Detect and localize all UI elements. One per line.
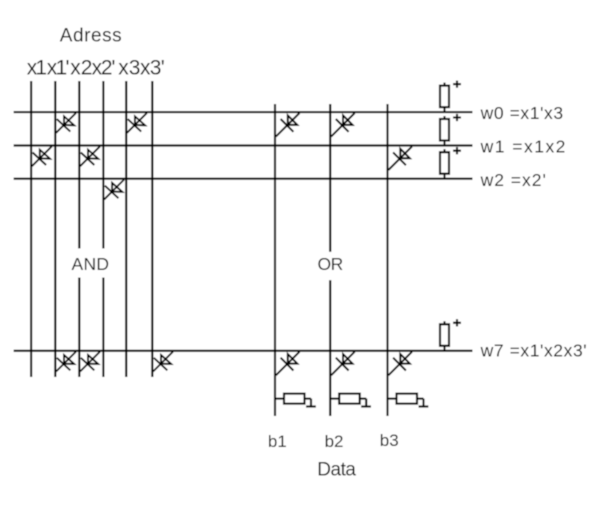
wire: bit line b3: [386, 104, 388, 416]
svg-text:w0 =x1'x3: w0 =x1'x3: [480, 103, 563, 123]
svg-text:x3: x3: [118, 56, 140, 79]
pull-up resistor R7 on w7 with + supply: [440, 319, 461, 351]
pull-down resistor Rb1 with ground: [275, 394, 316, 407]
pull-down resistor Rb3 with ground: [388, 394, 429, 407]
pull-up resistor R2 on w2 with + supply: [440, 147, 461, 179]
wire: address line x1': [54, 81, 56, 377]
svg-text:x2': x2': [92, 56, 116, 79]
diode D8 (w7, x3'): [153, 352, 173, 372]
svg-text:x2: x2: [70, 56, 92, 79]
diode D2 (w0, x3): [127, 113, 147, 133]
wire: word line w1: [14, 144, 473, 146]
svg-text:w1 =x1x2: w1 =x1x2: [480, 136, 566, 156]
diode D7 (w7, x2): [80, 352, 100, 372]
diode D9 (w0, b1): [276, 113, 300, 137]
svg-text:x3': x3': [140, 56, 165, 79]
wire: address line x2 (gap at AND text): [78, 81, 80, 377]
svg-text:w2 =x2': w2 =x2': [480, 170, 546, 190]
pull-up resistor R0 on w0 with + supply: [440, 81, 461, 113]
wire: address line x1: [30, 81, 32, 377]
wire: bit line b1: [274, 104, 276, 416]
svg-text:b3: b3: [380, 431, 399, 450]
diode D1 (w0, x1'): [56, 113, 76, 133]
diode D14 (w7, b3): [388, 352, 412, 376]
svg-text:Data: Data: [317, 460, 356, 481]
wire: word line w2: [14, 178, 473, 180]
diode D4 (w1, x2): [80, 146, 100, 166]
diode D11 (w1, b3): [388, 146, 412, 170]
diode D3 (w1, x1): [32, 146, 52, 166]
svg-text:b2: b2: [325, 432, 344, 451]
pull-up resistor R1 on w1 with + supply: [440, 114, 461, 146]
svg-text:OR: OR: [318, 254, 344, 274]
pull-down resistor Rb2 with ground: [330, 394, 371, 407]
svg-text:x1: x1: [27, 56, 47, 79]
diode D10 (w0, b2): [331, 113, 355, 137]
wire: bit line b2 (gap at OR text): [329, 104, 331, 416]
diode D13 (w7, b2): [331, 352, 355, 376]
wire: address line x3': [151, 81, 153, 377]
svg-text:AND: AND: [72, 254, 110, 274]
diode D5 (w2, x2'): [104, 180, 124, 200]
svg-text:x1': x1': [47, 56, 70, 79]
wire: address line x3: [125, 81, 127, 377]
diode D6 (w7, x1'): [56, 352, 76, 372]
svg-text:b1: b1: [268, 432, 287, 451]
svg-text:Adress: Adress: [60, 26, 122, 47]
diode D12 (w7, b1): [276, 352, 300, 376]
svg-text:w7 =x1'x2x3': w7 =x1'x2x3': [480, 341, 587, 361]
wire: address line x2' (gap at AND text): [102, 81, 104, 377]
wire: word line w7: [14, 350, 473, 352]
wire: word line w0: [14, 111, 473, 113]
